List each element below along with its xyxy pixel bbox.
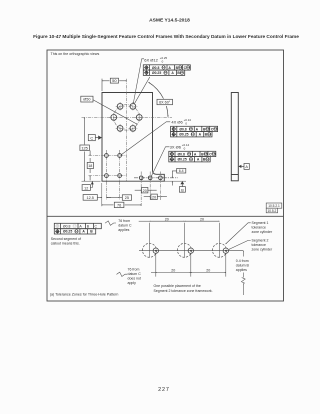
svg-text:apply: apply (128, 281, 137, 285)
fcf L row2 (second segment) (54, 229, 95, 234)
svg-text:tolerance: tolerance (252, 243, 266, 247)
svg-text:Ø50: Ø50 (83, 98, 90, 102)
dimension 18 (grid row spacing) (87, 151, 93, 181)
svg-text:C: C (211, 127, 214, 131)
svg-text:datum C: datum C (128, 272, 142, 276)
svg-text:Figure 10-47 Multiple Single-S: Figure 10-47 Multiple Single-Segment Fea… (33, 34, 299, 40)
svg-text:B: B (177, 71, 180, 75)
4X grid holes (105, 154, 163, 180)
hex pattern holes 6X (111, 104, 142, 132)
svg-text:callout means this.: callout means this. (51, 242, 80, 246)
segment 1 zone circle 3 (213, 243, 227, 257)
break symbol left (105, 221, 116, 225)
callout 6X dia 12 (133, 56, 190, 103)
grid hole bottom-left (105, 174, 109, 178)
svg-text:Ø0.8: Ø0.8 (178, 152, 185, 156)
grid hole bottom-right (118, 174, 122, 178)
svg-text:20: 20 (171, 268, 175, 272)
hex hole left (111, 115, 117, 121)
datum B symbol (179, 181, 185, 192)
svg-text:B: B (90, 230, 93, 234)
hex hole top-left (117, 104, 123, 110)
svg-text:Ø0.8: Ø0.8 (152, 66, 159, 70)
fcf U2 row1 (171, 126, 218, 131)
datum C symbol (88, 135, 102, 141)
figure border frame (47, 50, 284, 301)
plate front view outline (102, 93, 164, 182)
svg-text:76: 76 (117, 204, 121, 208)
side view step line (231, 174, 238, 176)
svg-text:25: 25 (125, 196, 129, 200)
svg-text:A: A (245, 165, 248, 169)
angle 60 deg reference line (134, 77, 150, 104)
svg-text:Ø0.25: Ø0.25 (179, 133, 188, 137)
angle dimension arc (149, 82, 169, 117)
svg-text:C: C (209, 152, 212, 156)
dimension 50 (102, 78, 127, 91)
fcf U3 row2 (169, 157, 210, 162)
svg-text:4X Ø6: 4X Ø6 (171, 120, 183, 125)
fcf U1 row1 (143, 65, 190, 70)
fcf U2 row2 (171, 132, 212, 137)
dim line segments (139, 220, 150, 222)
svg-text:A: A (168, 66, 171, 70)
hex pattern vertical centerline (126, 79, 128, 181)
fcf U3 row1 (169, 151, 216, 156)
svg-text:0: 0 (162, 59, 164, 63)
6X 60 deg box (157, 99, 173, 104)
svg-text:C: C (184, 66, 187, 70)
bottom dimension 76 (102, 202, 141, 207)
row hole column centerline 2 (149, 172, 151, 201)
row hole 2 (148, 176, 152, 180)
svg-text:B: B (181, 188, 184, 192)
hex hole right (136, 115, 142, 121)
svg-text:18: 18 (88, 164, 92, 168)
bottom dimension line of zone diagram (117, 272, 226, 276)
svg-text:Segment 2: Segment 2 (252, 238, 269, 242)
svg-text:Ø0.25: Ø0.25 (152, 71, 161, 75)
svg-text:tolerance: tolerance (252, 225, 266, 229)
svg-text:C: C (90, 135, 93, 140)
svg-text:A: A (194, 152, 197, 156)
top dimension line of zone diagram (105, 221, 220, 258)
svg-text:0.4 from: 0.4 from (236, 259, 249, 263)
panel divider line (47, 215, 284, 217)
extension lines up from zone centers (149, 223, 151, 258)
callout 3X dia 6 (152, 143, 216, 176)
hex hole crosshairs (109, 102, 143, 133)
svg-text:A: A (199, 133, 202, 137)
grid hole top-right (118, 154, 122, 158)
svg-text:76 from: 76 from (118, 219, 130, 223)
svg-text:A: A (171, 71, 174, 75)
grid hole top-left (105, 154, 109, 158)
three-hole row centerline (134, 177, 178, 179)
svg-text:50: 50 (112, 78, 117, 83)
svg-text:applies: applies (118, 228, 129, 232)
bottom dimension 12.5 (83, 183, 111, 206)
svg-text:20: 20 (206, 268, 210, 272)
extension lines down from segment 2 zones (156, 254, 226, 277)
segment 2 zone circle 2 (188, 248, 193, 253)
svg-text:This on the orthographic v: This on the orthographic views (51, 52, 100, 56)
callout 4X dia 6 (121, 118, 217, 154)
framework line (139, 250, 243, 252)
svg-text:6X 60°: 6X 60° (159, 101, 171, 105)
svg-text:B: B (203, 158, 206, 162)
svg-text:Ø0.25: Ø0.25 (63, 230, 72, 234)
tolerance zone cylinders (143, 243, 227, 257)
dimension 6.4 step (164, 168, 186, 185)
svg-text:Second segment of: Second segment of (51, 237, 81, 241)
svg-text:76 from: 76 from (128, 267, 140, 271)
segment 2 zone circle 3 (223, 248, 228, 253)
svg-text:One possible placement of: One possible placement of the (154, 284, 201, 288)
dimension 12 leader to bottom edge (82, 181, 94, 190)
svg-text:(a) Tolerance Zones for Th: (a) Tolerance Zones for Three-Hole Patte… (50, 293, 119, 297)
bottom dimension 20 second (144, 194, 167, 199)
grid row centerline 1 (89, 155, 127, 157)
segment 2 zone circle 1 (153, 248, 228, 253)
hex pattern horizontal centerline (82, 116, 173, 118)
bottom dimension 20 first (135, 188, 157, 193)
svg-text:zone cylinder: zone cylinder (252, 247, 273, 251)
hex hole top-right (130, 104, 136, 110)
segment 1 zone circle 2 (178, 243, 192, 257)
svg-text:Ø0.8: Ø0.8 (63, 224, 71, 228)
centerlines (82, 79, 173, 200)
grid column centerline 2 (119, 150, 121, 200)
0.4 from datum B dimension (241, 251, 245, 295)
fcf L row1 (first segment, faint) (54, 223, 101, 228)
hex hole bottom-left (117, 125, 123, 131)
svg-text:applies: applies (236, 268, 247, 272)
row hole column centerline 3 (159, 172, 161, 201)
svg-text:B: B (176, 66, 179, 70)
bottom dimension 25 (106, 195, 131, 201)
row hole column centerline 1 (140, 172, 142, 207)
svg-text:A: A (197, 158, 200, 162)
bolt circle dia label (81, 96, 137, 124)
svg-text:C: C (95, 224, 98, 228)
fcf U1 row2 (143, 70, 184, 75)
break symbol left (117, 272, 128, 276)
svg-text:A: A (196, 127, 199, 131)
svg-text:125: 125 (81, 145, 88, 150)
grid row centerline 2 (89, 175, 127, 177)
svg-text:12.5: 12.5 (87, 196, 94, 200)
svg-text:Ø0.8: Ø0.8 (179, 127, 186, 131)
svg-text:20: 20 (143, 189, 147, 193)
svg-text:datum C: datum C (118, 223, 132, 227)
row hole 3 (159, 176, 163, 180)
svg-text:6.4: 6.4 (179, 169, 184, 173)
svg-text:datum B: datum B (236, 263, 250, 267)
hex hole bottom-right (130, 125, 136, 131)
svg-text:Ø0.25: Ø0.25 (177, 158, 186, 162)
svg-text:B: B (87, 224, 90, 228)
svg-text:Segment 1: Segment 1 (252, 221, 269, 225)
svg-text:3X Ø6: 3X Ø6 (170, 145, 182, 150)
dimension 125 (80, 117, 101, 181)
svg-text:10.5.2: 10.5.2 (267, 209, 276, 213)
svg-text:B: B (201, 152, 204, 156)
svg-text:B: B (203, 127, 206, 131)
svg-text:227: 227 (158, 387, 170, 393)
svg-text:20: 20 (165, 218, 169, 222)
svg-text:zone cylinder: zone cylinder (252, 230, 273, 234)
row hole 1 (139, 176, 143, 180)
svg-text:20: 20 (152, 195, 156, 199)
svg-text:6X Ø12: 6X Ø12 (144, 57, 158, 62)
svg-text:B: B (205, 133, 208, 137)
svg-text:20: 20 (200, 218, 204, 222)
leader to grid hole (121, 122, 170, 155)
svg-text:A: A (82, 230, 85, 234)
svg-text:does not: does not (128, 276, 141, 280)
bolt circle (114, 105, 140, 130)
side view outline (231, 93, 238, 181)
svg-text:12: 12 (84, 186, 88, 190)
leader to hex hole (133, 59, 144, 104)
svg-text:ASME Y14.5-2018: ASME Y14.5-2018 (149, 18, 190, 24)
svg-text:A: A (79, 224, 82, 228)
svg-text:10.5.2.1: 10.5.2.1 (268, 204, 280, 208)
svg-text:Segment 2 tolerance zone fr: Segment 2 tolerance zone framework. (154, 289, 213, 293)
grid column centerline 1 (105, 150, 107, 200)
datum A symbol (238, 164, 249, 170)
paragraph reference boxes (266, 203, 282, 213)
segment 1 zone circle 1 (143, 243, 157, 257)
leader to row hole 2 (152, 147, 170, 176)
